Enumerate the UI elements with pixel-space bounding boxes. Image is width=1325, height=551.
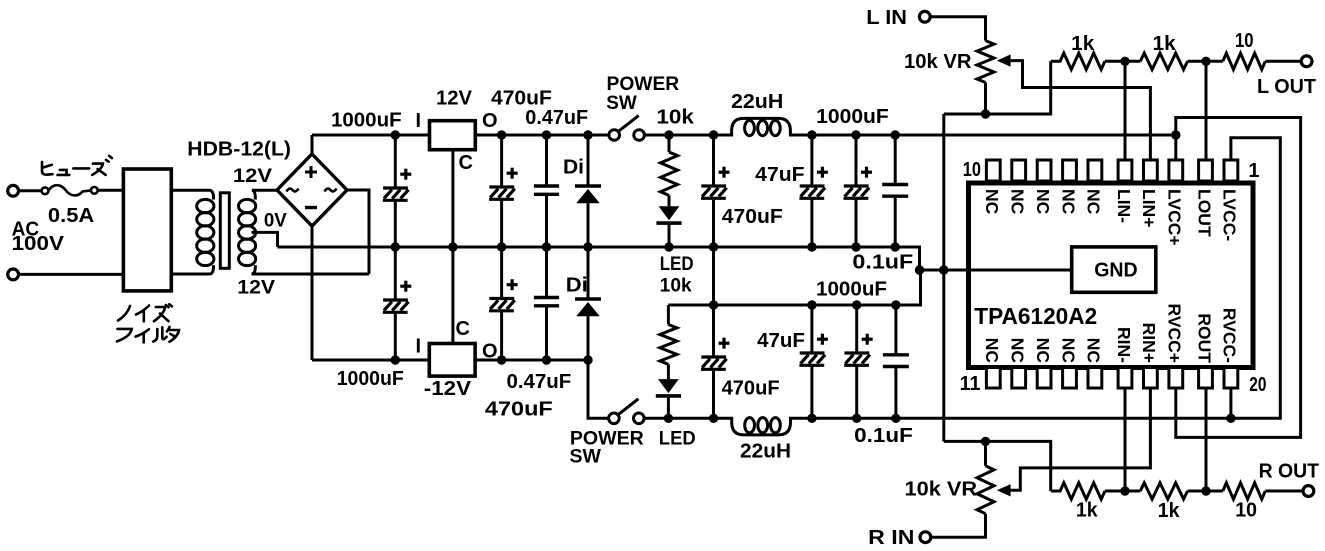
wire 1k to RIN- junction (1105, 490, 1140, 493)
svg-text:12V: 12V (233, 166, 273, 187)
svg-text:Di: Di (566, 275, 588, 297)
junction 0V rail / C10 (891, 242, 900, 251)
wire 1000uF cap branch (x=395 lower) (394, 247, 397, 300)
wire VR1 bottom to ground junction (984, 83, 987, 115)
svg-text:LVCC+: LVCC+ (1165, 189, 1185, 246)
svg-text:NC: NC (982, 338, 1002, 364)
label ノイズ (noise filter, katakana line 1) (118, 304, 172, 321)
wire 1000uF cap branch mid upper (855, 135, 858, 186)
svg-text:Di: Di (563, 156, 584, 178)
svg-text:12V: 12V (237, 278, 275, 299)
svg-text:47uF: 47uF (757, 330, 805, 352)
svg-text:NC: NC (1033, 189, 1053, 215)
wire 470uF cap branch (x=713 upper) (712, 135, 715, 186)
junction +V rail / C7+L1 (709, 130, 718, 139)
junction +V rail / C1 (391, 130, 400, 139)
capacitor C2 1000uF (electrolytic) (383, 281, 412, 313)
capacitor C7 470uF (electrolytic) (701, 167, 730, 199)
wire bottom ground wire (944, 441, 1051, 491)
potentiometer VR1 10k (L) (977, 41, 994, 83)
wire fuse to noise filter (98, 189, 124, 192)
svg-text:0.1uF: 0.1uF (854, 425, 913, 447)
bridge ~ mark right (325, 189, 337, 192)
switch POWER SW (bottom) (609, 399, 644, 424)
wire AC top terminal to fuse (19, 189, 42, 192)
wire RVCC- pin wire (1229, 388, 1232, 418)
junction lower bus / C14 (891, 300, 900, 309)
transformer T1 core (220, 193, 229, 268)
svg-text:0.5A: 0.5A (48, 205, 94, 227)
svg-text:20: 20 (1249, 374, 1266, 396)
capacitor C9 1000uF (electrolytic) (844, 167, 873, 199)
junction +V rail / R1 chain (664, 130, 673, 139)
svg-text:10k VR: 10k VR (905, 479, 978, 501)
capacitor C3 470uF (electrolytic) (489, 168, 517, 200)
svg-text:HDB-12(L): HDB-12(L) (187, 139, 291, 161)
svg-text:10: 10 (1235, 30, 1254, 52)
svg-text:NC: NC (1033, 338, 1053, 364)
svg-text:RIN+: RIN+ (1139, 323, 1159, 363)
svg-text:-12V: -12V (424, 378, 472, 400)
svg-text:10k: 10k (656, 107, 694, 129)
wire lower LED to -V lead (667, 396, 670, 418)
wire 470uF x713 bottom lead (712, 198, 715, 247)
junction 0V rail / C3-C4 (497, 242, 506, 251)
svg-text:470uF: 470uF (722, 206, 783, 228)
inductor L1 22uH (top) (714, 118, 812, 135)
junction R7/R8/ROUT (1201, 486, 1210, 495)
svg-text:1: 1 (1248, 160, 1259, 182)
bridge - mark (305, 206, 317, 209)
resistor R3 1k (L feedback gnd) (1051, 53, 1105, 69)
svg-text:LVCC-: LVCC- (1220, 189, 1240, 241)
bridge + mark (305, 166, 317, 178)
capacitor C10 0.1uF (film) (882, 185, 908, 197)
junction 0V rail / reg C pins (448, 242, 457, 251)
wire top ground wire (944, 61, 1051, 114)
capacitor C4 470uF (electrolytic) (489, 279, 517, 311)
wire 0V rail (278, 247, 920, 270)
svg-text:NC: NC (1084, 189, 1104, 215)
wire Di branch upper top lead (587, 135, 590, 186)
svg-text:LIN+: LIN+ (1139, 189, 1159, 227)
diode Di (lower) (575, 299, 601, 316)
svg-text:L OUT: L OUT (1257, 76, 1316, 98)
wire secondary 12V bottom tap (252, 273, 370, 276)
capacitor C11 470uF (electrolytic) (701, 338, 730, 370)
bridge ~ mark left (287, 189, 299, 192)
svg-text:1000uF: 1000uF (816, 279, 887, 301)
svg-text:C: C (459, 152, 473, 174)
svg-text:11: 11 (960, 373, 981, 395)
wire 1000uF mid upper bottom lead (855, 198, 858, 247)
capacitor C13 1000uF (electrolytic) (844, 334, 873, 366)
wire 47uF upper bottom lead (810, 198, 813, 247)
wire VR2 wiper wire to RIN+ (1011, 388, 1151, 490)
terminal R IN (920, 532, 931, 543)
wire +V rail (regulator O to switch) (475, 134, 609, 137)
junction +V rail / C3 (497, 130, 506, 139)
wire lower chain lead (667, 305, 670, 325)
svg-text:NC: NC (1008, 189, 1028, 215)
transformer T1 secondary winding (239, 190, 256, 274)
wire lower 10k to LED lead (667, 364, 670, 379)
wire -12V regulator C pin to 0V (451, 247, 454, 344)
wire 0.1uF cap branch upper (894, 135, 897, 185)
svg-text:12V: 12V (436, 88, 473, 110)
wire 470uF cap branch (x=713 lower) (712, 305, 715, 357)
junction 0V rail / Di (583, 242, 592, 251)
wire RIN- pin wire (1124, 388, 1127, 491)
capacitor C14 0.1uF (film) (883, 355, 909, 367)
capacitor C5 0.47uF (film) (534, 186, 559, 194)
wire -V rail (bridge to regulator I) (312, 359, 429, 362)
wire LVCC+ pin wire (1176, 118, 1301, 438)
wire LVCC- pin wire (1231, 138, 1280, 419)
svg-text:LIN-: LIN- (1114, 189, 1134, 223)
capacitor C8 47uF (electrolytic) (799, 167, 828, 199)
wire +12V regulator C pin to 0V (451, 150, 454, 247)
wire LIN- pin wire (1124, 61, 1127, 160)
svg-text:1k: 1k (1071, 33, 1095, 55)
wire 0.47uF lower bottom lead (545, 306, 548, 360)
svg-text:0.47uF: 0.47uF (525, 107, 588, 129)
diode Di (upper) (575, 186, 601, 203)
resistor R2 10k (660, 325, 677, 365)
wire 0.47uF cap branch upper (545, 135, 548, 186)
wire LOUT pin wire (1205, 61, 1208, 160)
junction 0V rail / LED1 (664, 242, 673, 251)
wire R4 to LOUT junction (1188, 60, 1223, 63)
wire 47uF lower bottom lead (810, 365, 813, 418)
junction 0V rail / bus feed (709, 242, 718, 251)
junction R6/R7/RIN- (1120, 486, 1129, 495)
wire bridge + output to +V rail (311, 135, 314, 154)
junction -V left rail / C6 (542, 355, 551, 364)
wire 0V to lower bus feed (712, 247, 715, 305)
wire 0.1uF upper bottom lead (894, 196, 897, 247)
resistor R6 1k (R feedback gnd) (1051, 483, 1105, 499)
wire upper LED to 0V lead (668, 223, 671, 247)
junction +V rail / C5 (542, 130, 551, 139)
wire -V rail (switch to 22uH) (644, 417, 714, 420)
wire 1k to LIN- junction (1105, 60, 1140, 63)
regulator U2 +12V box (430, 121, 476, 150)
wire AC bottom terminal to noise filter (19, 273, 124, 276)
wire -V rail (regulator O to Di) (475, 359, 588, 362)
svg-text:LOUT: LOUT (1194, 189, 1214, 237)
svg-text:22uH: 22uH (731, 91, 783, 113)
wire secondary 0V center tap (252, 232, 278, 247)
svg-text:I: I (416, 336, 422, 358)
wire 1000uF lower cap bottom lead (394, 312, 397, 360)
junction +V rail / LVCC+ (1171, 130, 1180, 139)
svg-text:47uF: 47uF (755, 164, 804, 186)
junction -V left rail / C2 (391, 355, 400, 364)
ground GND box (1072, 247, 1156, 292)
resistor R1 10k (661, 152, 678, 195)
wire R5 to L OUT terminal (1265, 60, 1301, 63)
svg-text:GND: GND (1094, 260, 1138, 282)
junction 0V rail / C8 (807, 242, 816, 251)
wire 470uF upper cap bottom lead (500, 199, 503, 247)
noise filter box (123, 169, 171, 291)
svg-text:RIN-: RIN- (1114, 327, 1134, 363)
svg-text:NC: NC (1084, 338, 1104, 364)
svg-text:22uH: 22uH (740, 441, 791, 463)
svg-text:1000uF: 1000uF (816, 106, 889, 128)
wire -V rail drop to switch (588, 360, 609, 418)
wire 1000uF cap branch lower lead (394, 200, 397, 247)
wire 0.47uF upper bottom lead (545, 194, 548, 247)
bridge rectifier HDB-12(L) (277, 154, 347, 226)
svg-text:C: C (456, 318, 470, 340)
svg-text:SW: SW (570, 447, 601, 468)
resistor R5 10 (L output) (1223, 53, 1266, 69)
svg-text:O: O (482, 110, 498, 132)
wire upper 10k/LED chain top lead (668, 135, 671, 152)
resistor R7 1k (R feedback) (1140, 483, 1187, 499)
svg-text:SW: SW (606, 93, 637, 114)
svg-text:NC: NC (1008, 338, 1028, 364)
wire 1000uF cap branch (x=395 upper) (394, 135, 397, 188)
junction +V rail / C10 (891, 130, 900, 139)
svg-text:TPA6120A2: TPA6120A2 (974, 303, 1097, 329)
svg-text:1k: 1k (1158, 500, 1181, 522)
svg-text:RVCC+: RVCC+ (1165, 304, 1185, 364)
junction VR1 bottom gnd (981, 109, 990, 118)
svg-text:R IN: R IN (868, 527, 914, 549)
junction R4/R5/LOUT (1201, 57, 1210, 66)
terminal R OUT (1303, 486, 1314, 497)
wire +V rail after inductor (812, 134, 1176, 137)
wire lower 10k/LED chain top (668, 304, 713, 307)
wire ground wire to GND (920, 269, 1072, 272)
junction -V rail / C12 (807, 414, 816, 423)
wire Di branch upper bottom lead (587, 203, 590, 247)
wire VR1 wiper wire to LIN+ (1011, 61, 1151, 160)
transformer T1 primary winding (197, 190, 214, 274)
junction R3/R4/LIN- (1120, 57, 1129, 66)
svg-text:LED: LED (660, 254, 694, 275)
LED LED2 (656, 379, 681, 396)
junction lower bus / C11 (709, 300, 718, 309)
wire L IN wire (930, 17, 985, 41)
junction -V rail / C11+L2 (709, 414, 718, 423)
terminal L IN (919, 11, 930, 22)
svg-text:O: O (482, 341, 498, 363)
svg-text:LED: LED (659, 429, 696, 450)
svg-text:470uF: 470uF (485, 399, 553, 421)
capacitor C6 0.47uF (film) (534, 298, 559, 306)
wire VR2 top to ground junction (984, 441, 987, 465)
svg-text:1k: 1k (1153, 33, 1177, 55)
terminal AC input bottom (8, 269, 19, 280)
junction 0V rail / C1-C2 (391, 242, 400, 251)
op-amp U1 TPA6120A2 body (969, 183, 1254, 368)
svg-text:470uF: 470uF (722, 378, 780, 400)
svg-text:10k VR: 10k VR (904, 51, 972, 73)
junction GND wire / feed (939, 265, 948, 274)
junction -V rail / C14 (891, 414, 900, 423)
resistor R8 10 (R output) (1223, 483, 1266, 499)
junction +V rail / C8 (807, 130, 816, 139)
wire filter to transformer primary top (171, 189, 209, 192)
junction -V rail / C13 (852, 414, 861, 423)
svg-text:NC: NC (982, 189, 1002, 215)
svg-text:ROUT: ROUT (1194, 313, 1214, 363)
svg-text:NC: NC (1058, 338, 1078, 364)
wire Di branch lower bottom lead (587, 316, 590, 360)
svg-text:L IN: L IN (866, 7, 907, 29)
LED LED1 (656, 206, 681, 223)
wire 0.47uF cap branch lower (545, 247, 548, 298)
wire 47uF cap branch upper (810, 135, 813, 186)
label フィルタ (noise filter, katakana line 2) (117, 327, 179, 343)
junction lower bus / C13 (852, 300, 861, 309)
junction +V rail / C9 (851, 130, 860, 139)
junction GND wire / 0V (915, 265, 924, 274)
wire 1000uF cap branch mid lower (855, 305, 858, 353)
wire lower ground bus (668, 270, 920, 305)
U1 top pin row (pins 10..1) (986, 160, 1237, 181)
svg-text:R OUT: R OUT (1259, 461, 1319, 483)
wire 1000uF mid lower bottom lead (855, 365, 858, 418)
junction +V rail / Di upper (583, 130, 592, 139)
wire bridge - output down (311, 226, 314, 360)
wire upper 10k to LED lead (668, 195, 671, 206)
inductor L2 22uH (bottom) (714, 418, 812, 435)
wire ground feed vertical (942, 114, 945, 441)
wire 470uF cap branch (x=501 upper) (500, 135, 503, 187)
capacitor C12 47uF (electrolytic) (799, 334, 828, 366)
VR1 wiper arrow (997, 54, 1011, 66)
wire 0.1uF cap branch lower (894, 305, 897, 355)
svg-text:1k: 1k (1076, 500, 1099, 522)
wire R8 to R OUT terminal (1265, 490, 1303, 493)
U1 bottom pin row (pins 11..20) (986, 368, 1237, 389)
junction -V left rail / Di lower (583, 355, 592, 364)
fuse F1 0.5A (42, 185, 98, 195)
svg-text:0.47uF: 0.47uF (507, 371, 572, 393)
junction 0V rail / C5-C6 (542, 242, 551, 251)
wire 0.1uF lower bottom lead (894, 367, 897, 419)
wire bridge right vertex to bottom tap (347, 190, 369, 274)
resistor R4 1k (L feedback) (1140, 53, 1187, 69)
svg-text:RVCC-: RVCC- (1220, 308, 1240, 363)
wire 47uF cap branch lower (810, 305, 813, 353)
wire R IN wire (931, 514, 986, 538)
terminal L OUT (1301, 56, 1312, 67)
wire R7 to ROUT junction (1188, 490, 1223, 493)
wire ROUT pin wire (1205, 388, 1208, 491)
wire filter to transformer primary bottom (171, 273, 209, 276)
svg-text:1000uF: 1000uF (331, 110, 402, 132)
label ヒューズ (fuse, katakana) (42, 156, 112, 175)
junction -V left rail / C4 (497, 355, 506, 364)
terminal AC input top (8, 185, 19, 196)
junction 0V rail / C9 (851, 242, 860, 251)
svg-text:0V: 0V (264, 211, 287, 232)
potentiometer VR2 10k (R) (977, 466, 994, 514)
svg-text:0.1uF: 0.1uF (852, 252, 913, 274)
junction lower bus / C12 (807, 300, 816, 309)
wire +V rail (switch to LVCC+) (644, 134, 713, 137)
wire secondary 12V top tap to bridge (252, 189, 277, 192)
VR2 wiper arrow (997, 484, 1011, 496)
wire 470uF cap branch (x=501 lower) (500, 247, 503, 299)
svg-text:I: I (416, 110, 422, 132)
junction -V rail / LED2 (664, 414, 673, 423)
junction -V rail / RVCC- (1226, 414, 1235, 423)
svg-text:10k: 10k (660, 276, 692, 297)
svg-text:10: 10 (1235, 500, 1257, 522)
capacitor C1 1000uF (electrolytic) (383, 169, 412, 201)
junction VR2 top gnd (981, 437, 990, 446)
wire 470uF x713 lower bottom lead (712, 369, 715, 418)
wire Di branch lower top lead (587, 247, 590, 299)
svg-text:100V: 100V (12, 233, 65, 255)
wire -V rail to RVCC- (812, 417, 1231, 420)
switch POWER SW (top) (609, 116, 644, 141)
svg-text:NC: NC (1058, 189, 1078, 215)
regulator U3 -12V box (429, 344, 475, 377)
wire 470uF lower cap bottom lead (500, 311, 503, 360)
svg-text:1000uF: 1000uF (337, 368, 404, 390)
svg-text:10: 10 (963, 159, 981, 181)
wire +V rail (bridge to regulator I) (312, 134, 430, 137)
